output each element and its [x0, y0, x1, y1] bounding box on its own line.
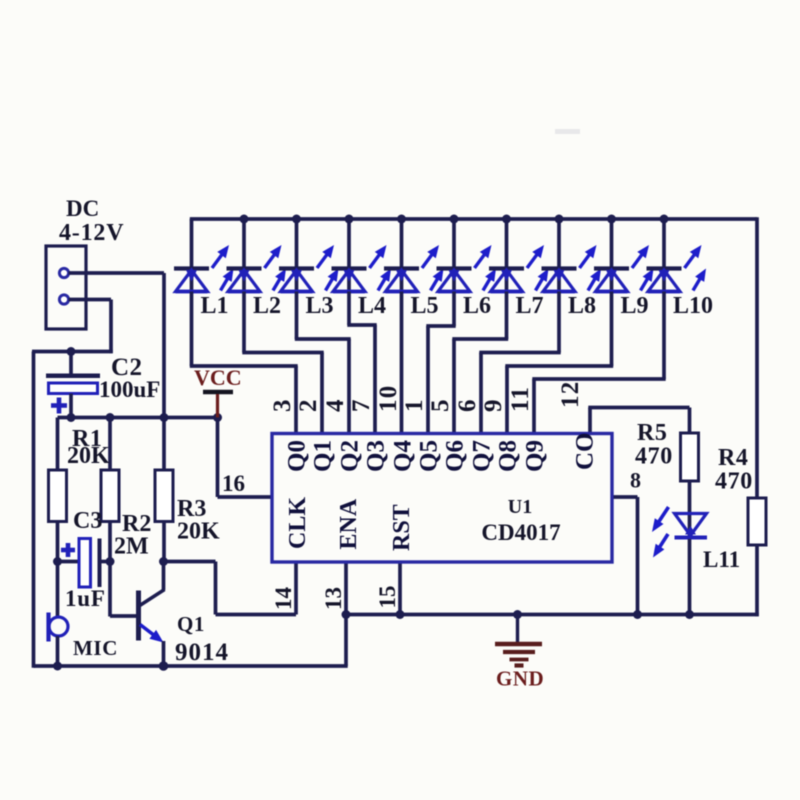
- svg-text:L8: L8: [568, 293, 596, 319]
- svg-text:20K: 20K: [177, 519, 220, 545]
- svg-text:L9: L9: [621, 293, 649, 319]
- svg-text:L6: L6: [463, 293, 491, 319]
- svg-text:CLK: CLK: [285, 497, 311, 549]
- svg-text:20K: 20K: [67, 443, 110, 469]
- svg-text:L2: L2: [253, 293, 281, 319]
- svg-text:RST: RST: [389, 504, 415, 551]
- svg-text:1: 1: [401, 400, 428, 413]
- svg-text:Q5: Q5: [416, 440, 443, 472]
- svg-text:470: 470: [635, 444, 673, 470]
- svg-text:Q4: Q4: [390, 440, 417, 472]
- svg-text:L4: L4: [358, 293, 386, 319]
- svg-text:Q9: Q9: [522, 440, 549, 472]
- svg-text:ENA: ENA: [336, 498, 362, 549]
- svg-text:9014: 9014: [175, 639, 229, 666]
- svg-text:3: 3: [269, 400, 296, 413]
- svg-text:9: 9: [480, 400, 507, 413]
- svg-text:MIC: MIC: [73, 636, 118, 660]
- svg-text:Q0: Q0: [284, 440, 311, 472]
- svg-text:R4: R4: [718, 445, 749, 471]
- svg-text:Q3: Q3: [363, 440, 390, 472]
- svg-text:GND: GND: [496, 667, 544, 691]
- svg-text:CO: CO: [572, 433, 599, 471]
- svg-text:16: 16: [222, 471, 245, 496]
- svg-text:L1: L1: [201, 293, 229, 319]
- svg-text:CD4017: CD4017: [481, 520, 560, 545]
- svg-text:8: 8: [630, 468, 641, 493]
- svg-text:DC: DC: [66, 196, 99, 221]
- svg-text:10: 10: [375, 385, 402, 412]
- svg-text:7: 7: [348, 400, 375, 413]
- svg-text:4: 4: [322, 399, 349, 412]
- svg-text:2: 2: [295, 400, 322, 413]
- svg-text:VCC: VCC: [194, 365, 242, 390]
- svg-text:1uF: 1uF: [65, 586, 106, 611]
- svg-text:L3: L3: [306, 293, 334, 319]
- svg-text:C3: C3: [73, 508, 102, 534]
- svg-text:Q8: Q8: [495, 440, 522, 472]
- svg-text:100uF: 100uF: [99, 377, 160, 402]
- svg-text:U1: U1: [508, 496, 532, 518]
- svg-text:6: 6: [454, 400, 481, 413]
- svg-text:15: 15: [375, 586, 400, 609]
- svg-text:470: 470: [715, 469, 753, 495]
- svg-text:L5: L5: [411, 293, 439, 319]
- svg-text:14: 14: [271, 587, 296, 611]
- svg-text:4-12V: 4-12V: [59, 220, 124, 246]
- svg-text:Q1: Q1: [177, 612, 205, 636]
- svg-text:Q1: Q1: [310, 440, 337, 472]
- svg-text:11: 11: [507, 386, 534, 412]
- svg-text:L7: L7: [516, 293, 544, 319]
- svg-text:Q2: Q2: [337, 440, 364, 472]
- svg-text:Q6: Q6: [442, 440, 469, 472]
- svg-text:5: 5: [427, 400, 454, 413]
- svg-text:Q7: Q7: [469, 440, 496, 472]
- svg-text:13: 13: [321, 587, 346, 610]
- svg-text:L10: L10: [673, 293, 713, 319]
- svg-text:12: 12: [557, 381, 584, 408]
- svg-text:R5: R5: [637, 420, 668, 446]
- svg-text:L11: L11: [703, 547, 740, 572]
- svg-text:2M: 2M: [114, 534, 149, 560]
